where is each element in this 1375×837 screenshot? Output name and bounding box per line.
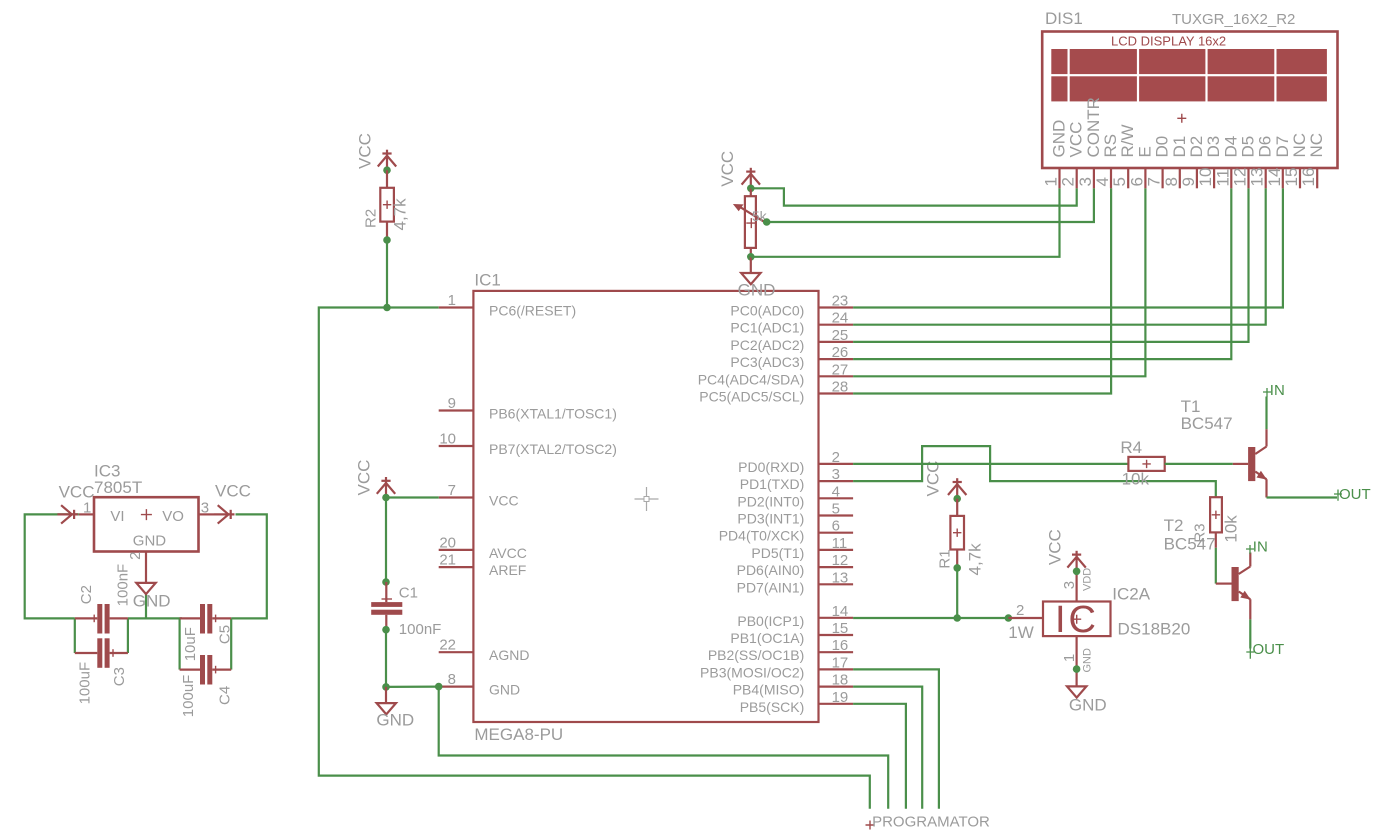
svg-text:10: 10 <box>1196 168 1215 187</box>
wire VCC down to C1 <box>385 498 387 583</box>
wire gnd net to programmer <box>439 687 889 809</box>
IC1 pin 2 PD0(RXD) <box>738 449 853 475</box>
wire PC0 to LCD pin 14 D7 <box>853 188 1283 307</box>
wire VCC-out loop net <box>231 514 267 618</box>
transistor T1 BC547 <box>1181 397 1267 498</box>
svg-text:PB3(MOSI/OC2): PB3(MOSI/OC2) <box>700 664 804 680</box>
net label PROGRAMATOR <box>866 813 991 830</box>
svg-text:PC2(ADC2): PC2(ADC2) <box>730 337 804 353</box>
svg-text:7: 7 <box>448 482 456 499</box>
svg-text:10uF: 10uF <box>182 627 199 661</box>
svg-text:LCD DISPLAY 16x2: LCD DISPLAY 16x2 <box>1111 34 1226 49</box>
capacitor C4 100uF <box>180 655 234 717</box>
svg-text:PC6(/RESET): PC6(/RESET) <box>489 303 576 319</box>
svg-text:AVCC: AVCC <box>489 545 527 561</box>
IC1 pin 22 AGND <box>439 637 530 664</box>
svg-text:VDD: VDD <box>1082 568 1094 591</box>
svg-text:VCC: VCC <box>1045 529 1064 565</box>
junction R2 top <box>383 166 391 174</box>
wire IC3 gnd drop <box>145 594 147 618</box>
IC1 pin 7 VCC <box>439 482 519 509</box>
wire PB4 MISO to programmer <box>853 687 922 809</box>
svg-text:PD4(T0/XCK): PD4(T0/XCK) <box>719 528 805 544</box>
svg-text:1: 1 <box>448 292 456 309</box>
IC1 pin 8 GND <box>439 671 520 698</box>
resistor R3 10k <box>1191 497 1240 548</box>
LCD pin 9 D2 <box>1179 136 1206 189</box>
LCD pin 12 D5 <box>1231 136 1258 189</box>
svg-text:25: 25 <box>832 327 849 344</box>
svg-text:2: 2 <box>832 449 840 466</box>
svg-text:GND: GND <box>1082 648 1094 673</box>
resistor R2 4,7k <box>362 170 409 240</box>
svg-text:21: 21 <box>439 552 456 569</box>
svg-text:2: 2 <box>127 552 144 560</box>
svg-text:9: 9 <box>1179 177 1198 186</box>
wire wiper to LCD pin 3 <box>767 188 1094 222</box>
svg-text:1W: 1W <box>1008 623 1034 642</box>
junction R1 top <box>953 495 961 503</box>
svg-text:E: E <box>1135 146 1154 157</box>
svg-text:VCC: VCC <box>489 493 519 509</box>
wire VCC to LCD pin 2 <box>751 188 1077 205</box>
LCD pin 13 D6 <box>1248 136 1275 189</box>
svg-text:1: 1 <box>83 500 91 517</box>
svg-text:VCC: VCC <box>354 460 373 496</box>
IC1 pin 6 PD4(T0/XCK) <box>719 518 853 544</box>
wire T2 emitter to OUT <box>1249 619 1251 648</box>
svg-text:BC547: BC547 <box>1181 414 1233 433</box>
wire VCC-in loop net <box>25 514 79 618</box>
svg-text:VCC: VCC <box>355 133 374 169</box>
VCC symbol left of IC3 <box>57 482 94 523</box>
svg-text:13: 13 <box>832 569 849 586</box>
svg-text:DS18B20: DS18B20 <box>1118 619 1191 638</box>
IC1 pin 1 PC6(/RESET) <box>439 292 576 319</box>
svg-text:NC: NC <box>1307 133 1326 158</box>
svg-text:3: 3 <box>832 466 840 483</box>
svg-text:PC0(ADC0): PC0(ADC0) <box>730 303 804 319</box>
svg-text:PC4(ADC4/SDA): PC4(ADC4/SDA) <box>698 371 805 387</box>
svg-text:12: 12 <box>832 552 849 569</box>
svg-text:R1: R1 <box>936 549 953 568</box>
LCD pin 8 D1 <box>1162 136 1189 189</box>
svg-text:10: 10 <box>439 431 456 448</box>
svg-text:NC: NC <box>1290 133 1309 158</box>
svg-text:PB6(XTAL1/TOSC1): PB6(XTAL1/TOSC1) <box>489 406 617 422</box>
IC1 pin 14 PB0(ICP1) <box>737 603 853 629</box>
svg-text:TUXGR_16X2_R2: TUXGR_16X2_R2 <box>1172 11 1295 28</box>
svg-text:28: 28 <box>832 379 849 396</box>
svg-text:7805T: 7805T <box>94 478 142 497</box>
svg-text:11: 11 <box>832 535 848 552</box>
svg-text:5: 5 <box>832 501 840 518</box>
junction trimmer top <box>747 185 755 193</box>
svg-text:15: 15 <box>1282 168 1301 187</box>
IC1 pin 24 PC1(ADC1) <box>730 310 853 336</box>
svg-text:4,7k: 4,7k <box>966 543 985 576</box>
svg-text:14: 14 <box>832 603 849 620</box>
svg-text:10k: 10k <box>1221 515 1240 543</box>
svg-text:4: 4 <box>832 483 840 500</box>
svg-text:27: 27 <box>832 361 849 378</box>
IC1 pin 17 PB3(MOSI/OC2) <box>700 654 853 680</box>
LCD pin 11 D4 <box>1213 136 1240 189</box>
svg-text:22: 22 <box>439 637 456 654</box>
LCD pin 2 VCC <box>1059 122 1086 189</box>
wire PC5 to LCD pin 4 RS <box>853 188 1111 393</box>
svg-text:GND: GND <box>133 532 167 549</box>
svg-text:PROGRAMATOR: PROGRAMATOR <box>872 813 990 830</box>
svg-text:PD7(AIN1): PD7(AIN1) <box>737 579 805 595</box>
LCD pin 4 RS <box>1093 134 1120 188</box>
wire PC2 to LCD pin 12 D5 <box>853 188 1248 342</box>
LCD display DIS1 TUXGR_16X2_R2 <box>1042 9 1337 168</box>
IC1 pin 11 PD5(T1) <box>751 535 853 561</box>
svg-text:PB7(XTAL2/TOSC2): PB7(XTAL2/TOSC2) <box>489 441 617 457</box>
VCC symbol above R2 <box>355 133 396 170</box>
svg-text:26: 26 <box>832 344 849 361</box>
svg-text:15: 15 <box>832 620 849 637</box>
LCD pin 3 CONTR <box>1076 97 1103 188</box>
svg-text:100nF: 100nF <box>115 564 132 607</box>
svg-text:17: 17 <box>832 654 849 671</box>
LCD pin 5 R/W <box>1110 124 1137 188</box>
svg-text:16: 16 <box>832 637 849 654</box>
wire PD0 to R4 <box>853 463 1128 465</box>
svg-text:14: 14 <box>1265 168 1284 187</box>
svg-text:D3: D3 <box>1204 136 1223 158</box>
svg-text:PB1(OC1A): PB1(OC1A) <box>730 630 804 646</box>
wire PD1 bridge jog to R3 <box>853 446 1216 497</box>
junction R1 bottom <box>953 564 961 572</box>
IC1 pin 27 PC4(ADC4/SDA) <box>698 361 853 387</box>
svg-text:6: 6 <box>832 518 840 535</box>
junction IC2A vdd <box>1073 568 1081 576</box>
svg-text:18: 18 <box>832 672 849 689</box>
wire C1 to gnd rail <box>386 630 439 687</box>
trimmer potentiometer 5k <box>733 188 768 256</box>
LCD pin 1 GND <box>1042 120 1069 189</box>
svg-text:BC547: BC547 <box>1164 534 1216 553</box>
svg-text:DIS1: DIS1 <box>1045 9 1083 28</box>
svg-text:19: 19 <box>832 689 849 706</box>
IC1 pin 23 PC0(ADC0) <box>730 293 853 319</box>
ground symbol below IC3 <box>133 583 171 610</box>
capacitor C5 10uF <box>180 604 234 661</box>
VCC symbol above IC2A <box>1045 529 1086 571</box>
svg-text:8: 8 <box>448 671 456 688</box>
svg-text:T2: T2 <box>1164 516 1184 535</box>
svg-text:11: 11 <box>1213 169 1232 187</box>
IC1 pin 9 PB6(XTAL1/TOSC1) <box>439 395 617 422</box>
svg-text:100uF: 100uF <box>180 675 197 718</box>
wire C3 left bracket <box>74 618 76 653</box>
IC1 pin 5 PD3(INT1) <box>737 501 853 527</box>
junction trimmer wiper <box>763 218 771 226</box>
svg-text:C3: C3 <box>111 667 128 686</box>
wire R3 to T2 base <box>1215 548 1217 584</box>
net label OUT (T2) <box>1246 641 1284 659</box>
VCC symbol right of IC3 <box>214 481 251 523</box>
svg-text:GND: GND <box>1050 120 1069 158</box>
svg-text:16: 16 <box>1299 168 1318 187</box>
svg-text:9: 9 <box>448 395 456 412</box>
wire R4 to T1 base <box>1165 463 1233 465</box>
svg-text:VCC: VCC <box>718 151 737 187</box>
svg-text:PD1(TXD): PD1(TXD) <box>740 476 805 492</box>
transistor T2 BC547 <box>1164 516 1251 619</box>
svg-text:1: 1 <box>1061 654 1078 662</box>
wire VCC to pin 7 <box>386 496 439 498</box>
wire C3 right bracket <box>127 618 129 653</box>
svg-text:PB4(MISO): PB4(MISO) <box>733 682 805 698</box>
svg-text:12: 12 <box>1231 168 1250 187</box>
IC1 pin 18 PB4(MISO) <box>733 672 853 698</box>
wire trimmer gnd to LCD pin 1 <box>751 188 1060 256</box>
wire T1 emitter to OUT <box>1267 496 1338 498</box>
svg-text:5: 5 <box>1110 177 1129 186</box>
svg-text:10k: 10k <box>1122 470 1150 489</box>
svg-text:24: 24 <box>832 310 849 327</box>
svg-text:6: 6 <box>1127 177 1146 186</box>
IC1 pin 21 AREF <box>439 552 527 579</box>
LCD pin 7 D0 <box>1145 136 1172 189</box>
junction IC2A gnd <box>1073 665 1081 673</box>
capacitor C3 100uF <box>75 638 128 704</box>
svg-text:GND: GND <box>1069 696 1107 715</box>
svg-text:100uF: 100uF <box>77 662 94 705</box>
svg-text:R/W: R/W <box>1118 124 1137 157</box>
svg-text:C1: C1 <box>399 585 418 602</box>
voltage regulator IC3 7805T <box>79 461 214 583</box>
svg-text:D2: D2 <box>1187 136 1206 158</box>
svg-text:C5: C5 <box>216 625 233 644</box>
svg-text:VCC: VCC <box>215 481 251 500</box>
ground symbol below C1 <box>376 687 414 730</box>
wire PC4 to LCD pin 6 E <box>853 188 1145 376</box>
LCD pin 6 E <box>1127 146 1154 188</box>
svg-text:2: 2 <box>1016 602 1024 619</box>
svg-text:IN: IN <box>1253 539 1268 556</box>
microcontroller IC1 MEGA8-PU <box>473 271 818 744</box>
svg-text:7: 7 <box>1145 177 1164 186</box>
svg-text:D0: D0 <box>1153 136 1172 158</box>
svg-text:23: 23 <box>832 293 849 310</box>
svg-text:PD2(INT0): PD2(INT0) <box>737 493 804 509</box>
IC1 pin 12 PD6(AIN0) <box>737 552 853 578</box>
resistor R4 10k <box>1120 438 1164 489</box>
wire PB0 to DS18B20 <box>853 617 1008 619</box>
svg-text:2: 2 <box>1059 177 1078 186</box>
IC1 pin 15 PB1(OC1A) <box>730 620 853 646</box>
cursor crosshair <box>635 487 659 511</box>
IC1 pin 3 PD1(TXD) <box>740 466 853 492</box>
junction gnd below C1 <box>382 683 390 691</box>
svg-text:PD5(T1): PD5(T1) <box>751 545 804 561</box>
LCD pin 10 D3 <box>1196 136 1223 189</box>
IC1 pin 28 PC5(ADC5/SCL) <box>699 379 853 405</box>
svg-text:PD6(AIN0): PD6(AIN0) <box>737 562 805 578</box>
svg-text:3: 3 <box>1061 581 1078 589</box>
svg-text:VCC: VCC <box>1067 122 1086 158</box>
svg-text:100nF: 100nF <box>399 621 442 638</box>
svg-text:OUT: OUT <box>1253 641 1285 658</box>
svg-text:GND: GND <box>133 591 171 610</box>
wire C4 right bracket <box>230 618 232 669</box>
VCC symbol above R1 <box>924 461 967 499</box>
capacitor C2 100nF <box>75 564 132 634</box>
svg-text:R4: R4 <box>1120 438 1142 457</box>
svg-text:OUT: OUT <box>1339 486 1371 503</box>
IC1 pin 25 PC2(ADC2) <box>730 327 853 353</box>
svg-text:4,7k: 4,7k <box>390 198 409 231</box>
IC1 pin 26 PC3(ADC3) <box>730 344 853 370</box>
wire GND mid rail <box>128 617 182 619</box>
svg-text:RS: RS <box>1101 134 1120 158</box>
svg-text:PB0(ICP1): PB0(ICP1) <box>737 613 804 629</box>
svg-text:R2: R2 <box>362 209 379 228</box>
svg-text:MEGA8-PU: MEGA8-PU <box>474 725 563 744</box>
svg-text:VO: VO <box>162 508 184 525</box>
svg-text:PB5(SCK): PB5(SCK) <box>740 699 805 715</box>
wire PC1 to LCD pin 13 D6 <box>853 188 1266 324</box>
VCC symbol at IC1 pin 7 <box>354 460 395 498</box>
svg-text:C2: C2 <box>78 585 95 604</box>
svg-text:PD3(INT1): PD3(INT1) <box>737 511 804 527</box>
net label IN (T1) <box>1263 382 1285 399</box>
svg-text:PB2(SS/OC1B): PB2(SS/OC1B) <box>708 647 804 663</box>
resistor R1 4,7k <box>936 499 984 576</box>
svg-text:VCC: VCC <box>924 461 943 497</box>
svg-text:D5: D5 <box>1239 136 1258 158</box>
temperature sensor IC2A DS18B20 <box>1008 568 1190 687</box>
net label IN (T2) <box>1246 539 1268 556</box>
IC1 pin 4 PD2(INT0) <box>737 483 853 509</box>
svg-text:AGND: AGND <box>489 647 529 663</box>
svg-text:VI: VI <box>110 508 124 525</box>
ground symbol below trimmer <box>738 257 776 300</box>
junction trimmer bottom <box>747 253 755 261</box>
wire C4 left bracket <box>179 618 181 669</box>
svg-text:C4: C4 <box>216 686 233 705</box>
wire T1 collector to IN <box>1265 397 1267 430</box>
LCD pin 16 NC <box>1299 133 1326 188</box>
wire PB3 MOSI to programmer <box>853 669 939 808</box>
IC1 pin 16 PB2(SS/OC1B) <box>708 637 853 663</box>
svg-text:PC5(ADC5/SCL): PC5(ADC5/SCL) <box>699 389 804 405</box>
svg-text:IC2A: IC2A <box>1112 585 1150 604</box>
svg-text:PC1(ADC1): PC1(ADC1) <box>730 320 804 336</box>
wire R1 to 1-wire net <box>956 568 958 618</box>
svg-text:20: 20 <box>439 534 456 551</box>
wire PB5 SCK to programmer <box>853 704 906 809</box>
junction C1 bottom <box>382 626 390 634</box>
svg-text:3: 3 <box>201 500 209 517</box>
svg-text:1: 1 <box>1042 177 1061 186</box>
LCD pin 14 D7 <box>1265 136 1292 189</box>
junction reset net <box>383 304 391 312</box>
svg-text:IN: IN <box>1270 382 1285 399</box>
IC1 pin 20 AVCC <box>439 534 527 561</box>
junction R2 bottom <box>383 236 391 244</box>
wire R2 to reset net <box>386 240 388 308</box>
junction pin8 <box>435 683 443 691</box>
net label OUT (T1) <box>1334 486 1371 503</box>
wire PC3 to LCD pin 11 D4 <box>853 188 1231 359</box>
junction 1-wire net IC2 pin <box>1005 614 1013 622</box>
svg-text:VCC: VCC <box>59 482 95 501</box>
VCC symbol above trimmer <box>718 151 760 189</box>
IC1 pin 10 PB7(XTAL2/TOSC2) <box>439 431 617 458</box>
IC1 pin 19 PB5(SCK) <box>740 689 853 715</box>
wire PC6 reset net to programmer <box>319 308 870 809</box>
junction 1-wire net R1 <box>953 614 961 622</box>
svg-text:GND: GND <box>738 280 776 299</box>
svg-text:GND: GND <box>489 682 520 698</box>
svg-text:PD0(RXD): PD0(RXD) <box>738 459 804 475</box>
LCD pin 15 NC <box>1282 133 1309 188</box>
svg-text:D7: D7 <box>1273 136 1292 158</box>
junction VCC pin7 <box>382 494 390 502</box>
capacitor C1 100nF <box>371 582 441 638</box>
svg-text:4: 4 <box>1093 177 1112 186</box>
svg-text:GND: GND <box>376 711 414 730</box>
ground symbol below IC2A <box>1067 686 1107 714</box>
svg-text:AREF: AREF <box>489 562 526 578</box>
svg-text:IC1: IC1 <box>474 271 500 290</box>
svg-text:D4: D4 <box>1221 136 1240 158</box>
IC1 pin 13 PD7(AIN1) <box>737 569 853 595</box>
junction C1 top <box>382 578 390 586</box>
svg-text:PC3(ADC3): PC3(ADC3) <box>730 354 804 370</box>
